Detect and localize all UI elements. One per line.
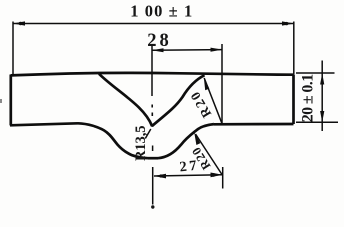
centerline upper solid segment [151,45,153,97]
arrow of lower R20 leader [194,132,200,145]
part outline: notch right R20 curve [152,75,205,126]
extension line right of 100 dim [293,22,295,75]
svg-text:R13,5: R13,5 [133,126,149,162]
leader line for upper R20 [204,78,222,123]
leader stroke for R13.5 [145,129,151,139]
arrow right of 28 dim [211,48,223,52]
dimension line 27 [154,175,223,176]
extension line bottom of 20 dim [296,121,338,123]
part outline: R20 rising curve [158,124,214,158]
arrow right of 27 dim [211,173,223,178]
part outline: bottom-left edge [10,123,78,125]
notch vertex blob [151,124,154,127]
scan speck left edge [0,99,2,103]
arrow left of 28 dim [152,48,164,52]
arrow of upper R20 leader [204,77,210,90]
part outline: R13.5 dip descent [78,123,148,158]
arrow up of 20 dim [320,73,324,84]
centerline lower segment / 27 left extension [152,167,154,205]
part outline: left edge [9,75,12,126]
centerline end dot [151,205,154,208]
part outline: dip bottom [148,157,158,160]
svg-text:1 00 ± 1: 1 00 ± 1 [130,2,192,21]
dimension line 20 [321,61,323,132]
extension line right of 27 dim [222,167,224,189]
svg-text:20 ± 0.1: 20 ± 0.1 [300,74,317,123]
part outline: notch left slope [99,74,152,126]
part outline: top edge (continuous over notch) [11,73,294,76]
extension line top of 20 dim [296,72,335,74]
extension line left of 100 dim [12,22,14,76]
part outline: bottom-right edge [214,123,294,126]
centerline dot 1 [151,105,153,108]
leader line for lower R20 [196,134,223,175]
dimension line 100 [13,23,294,25]
arrow down of 20 dim [320,111,324,122]
svg-text:28: 28 [147,31,169,51]
extension line right of 28 dim [221,44,223,124]
dimension line 28 [152,49,222,52]
arrow left of 100 dim [13,21,25,25]
arrow right of 100 dim [282,21,294,25]
arrow left of 27 dim [154,174,166,179]
centerline dot 2 [151,113,153,117]
part outline: right edge [292,75,295,124]
centerline short dash in dip [152,146,154,152]
